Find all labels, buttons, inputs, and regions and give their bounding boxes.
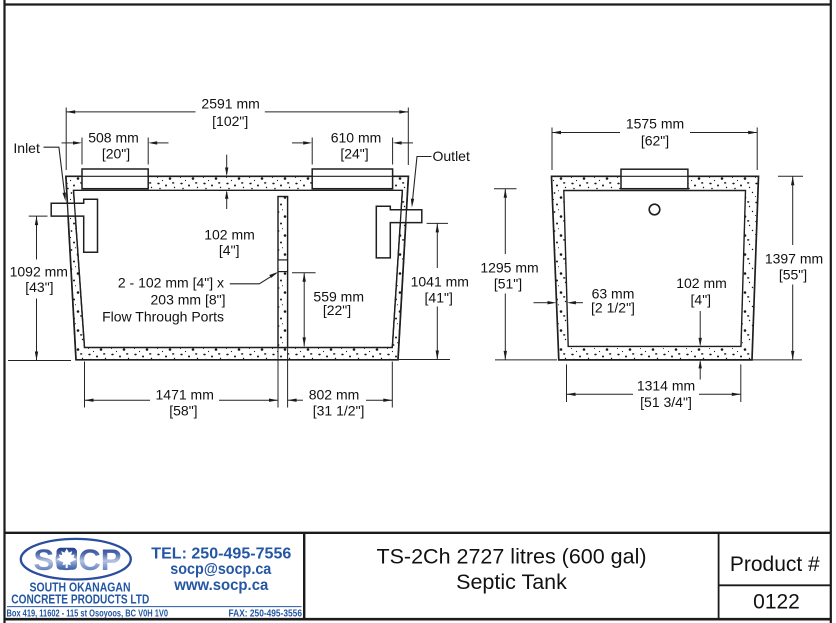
svg-text:[2 1/2"]: [2 1/2"] xyxy=(591,300,635,316)
dim 1092 bottom extension xyxy=(8,360,71,362)
SOCP logo oval xyxy=(21,539,131,580)
address rule xyxy=(7,606,302,608)
dim 508 extension lines xyxy=(81,138,83,165)
dim 102 floor arrows xyxy=(699,338,702,347)
svg-text:[62"]: [62"] xyxy=(641,132,669,148)
svg-text:2 - 102 mm [4"] x: 2 - 102 mm [4"] x xyxy=(118,275,224,291)
dim 1041 top tick xyxy=(427,222,448,224)
dim 610 extension lines xyxy=(311,138,313,165)
dim 102 arrows xyxy=(225,168,228,177)
svg-text:508 mm: 508 mm xyxy=(88,130,139,146)
company name xyxy=(11,580,149,607)
svg-text:[4"]: [4"] xyxy=(691,292,712,308)
svg-text:802 mm: 802 mm xyxy=(309,387,360,403)
svg-text:2591 mm: 2591 mm xyxy=(201,95,259,111)
title text xyxy=(376,545,646,595)
dim 1041 arrows xyxy=(436,223,439,232)
svg-text:TEL: 250-495-7556: TEL: 250-495-7556 xyxy=(151,545,291,562)
product number cell xyxy=(730,553,820,613)
svg-text:TS-2Ch 2727 litres (600 gal): TS-2Ch 2727 litres (600 gal) xyxy=(376,545,646,569)
dim 802 line xyxy=(288,399,303,401)
dim 2591 line xyxy=(66,111,195,113)
dim 1295 vertical line xyxy=(504,189,506,254)
svg-text:1397 mm: 1397 mm xyxy=(765,251,823,267)
dim 63 arrow tails xyxy=(534,302,549,304)
svg-text:102 mm: 102 mm xyxy=(204,227,255,243)
svg-text:203 mm [8"]: 203 mm [8"] xyxy=(151,291,226,307)
dim 1295 top tick xyxy=(494,188,517,190)
SOCP logo O block xyxy=(57,548,78,570)
dim 1295 bottom extension xyxy=(495,359,557,361)
tank concrete body (slab, walls, floor) xyxy=(66,176,409,359)
svg-text:1575 mm: 1575 mm xyxy=(626,116,684,132)
address line xyxy=(7,609,303,620)
inlet pipe tee xyxy=(51,199,97,252)
dim 1092 top tick xyxy=(29,215,48,217)
wall edge lines redrawn over pipes xyxy=(66,176,409,359)
dim 1314 line xyxy=(567,393,634,395)
flow ports leader xyxy=(230,272,278,284)
lift hole xyxy=(649,204,660,215)
outlet pipe tee xyxy=(376,206,422,258)
svg-text:1041 mm: 1041 mm xyxy=(411,274,469,290)
svg-text:1295 mm: 1295 mm xyxy=(480,259,538,275)
svg-text:1092 mm: 1092 mm xyxy=(10,264,68,280)
svg-text:[20"]: [20"] xyxy=(102,145,130,161)
center divider wall xyxy=(278,197,288,348)
left access lid xyxy=(82,169,148,189)
svg-text:610 mm: 610 mm xyxy=(331,130,382,146)
svg-text:1314 mm: 1314 mm xyxy=(637,377,695,393)
arrowheads left view xyxy=(35,110,439,402)
svg-text:[102"]: [102"] xyxy=(212,113,248,129)
dim 559 top tick xyxy=(292,272,316,274)
dim 2591 arrows xyxy=(66,110,75,113)
svg-text:Box 419, 11602 - 115 st Osoyo: Box 419, 11602 - 115 st Osoyoos, BC V0H … xyxy=(7,609,169,620)
dim 1314 extension lines xyxy=(566,364,568,402)
dim 1575 extension lines xyxy=(551,128,553,171)
tank concrete body xyxy=(552,176,759,360)
svg-text:[51"]: [51"] xyxy=(494,275,522,291)
dim 1397 top extension xyxy=(778,175,803,177)
svg-text:[41"]: [41"] xyxy=(425,289,453,305)
dim 610 arrows xyxy=(303,141,312,144)
svg-text:Outlet: Outlet xyxy=(433,148,470,164)
svg-text:Inlet: Inlet xyxy=(13,140,40,156)
contact info xyxy=(151,545,291,594)
svg-text:[22"]: [22"] xyxy=(323,302,351,318)
dim 1575 arrows xyxy=(552,131,561,134)
access lid (end view) xyxy=(621,169,688,189)
dim 1295 arrows xyxy=(504,189,507,198)
dim 1575 line xyxy=(552,132,620,134)
right access lid xyxy=(312,169,392,189)
dim 1041 bottom extension xyxy=(399,359,450,361)
svg-text:Septic Tank: Septic Tank xyxy=(456,570,567,594)
svg-text:CONCRETE PRODUCTS LTD: CONCRETE PRODUCTS LTD xyxy=(11,591,149,606)
svg-text:[51 3/4"]: [51 3/4"] xyxy=(640,394,692,410)
maple leaf xyxy=(57,549,76,569)
svg-text:Flow Through Ports: Flow Through Ports xyxy=(102,308,224,324)
svg-text:[4"]: [4"] xyxy=(219,242,240,258)
dim 1092 arrows xyxy=(35,216,38,225)
svg-text:SOCP: SOCP xyxy=(34,544,122,577)
dim 1397 vertical line xyxy=(792,176,794,245)
svg-text:1471 mm: 1471 mm xyxy=(156,387,214,403)
dim 63 arrows xyxy=(548,301,557,304)
dimension texts right view xyxy=(480,116,823,411)
svg-text:Product #: Product # xyxy=(730,553,820,576)
svg-text:socp@socp.ca: socp@socp.ca xyxy=(170,561,271,578)
svg-text:[55"]: [55"] xyxy=(779,267,807,283)
dim 559 vertical line xyxy=(303,273,305,347)
dim 559 arrows xyxy=(303,273,306,282)
dim 610 arrow tails xyxy=(292,142,305,144)
dim 1397 arrows xyxy=(791,176,794,185)
svg-text:102 mm: 102 mm xyxy=(676,275,727,291)
svg-text:[58"]: [58"] xyxy=(169,402,197,418)
dim 802 arrows xyxy=(288,399,297,402)
svg-text:[31 1/2"]: [31 1/2"] xyxy=(313,402,365,418)
svg-text:[43"]: [43"] xyxy=(25,279,53,295)
dim 1471 arrows xyxy=(85,399,94,402)
svg-text:[24"]: [24"] xyxy=(340,145,368,161)
dim 508 arrow tails xyxy=(62,142,75,144)
svg-text:0122: 0122 xyxy=(753,591,800,614)
dim 1041 vertical line xyxy=(436,223,438,268)
arrowheads right view xyxy=(504,131,795,396)
dim 102 floor arrows lines xyxy=(699,311,701,345)
svg-text:FAX: 250-495-3556: FAX: 250-495-3556 xyxy=(229,609,303,620)
dim 1314 arrows xyxy=(567,393,576,396)
outlet label xyxy=(411,148,470,208)
dimension texts left view xyxy=(10,95,469,418)
dim 1092 vertical line xyxy=(36,216,38,259)
inlet label xyxy=(13,140,66,201)
svg-text:www.socp.ca: www.socp.ca xyxy=(173,577,268,594)
dim 102 slab arrows lines xyxy=(226,155,228,175)
dim 1471 line xyxy=(85,399,151,401)
dim 1397 bottom extension xyxy=(752,359,802,361)
dim 508 arrows xyxy=(73,141,82,144)
dim 2591 extension lines xyxy=(65,108,67,171)
dim 1471 extension lines xyxy=(84,362,86,408)
